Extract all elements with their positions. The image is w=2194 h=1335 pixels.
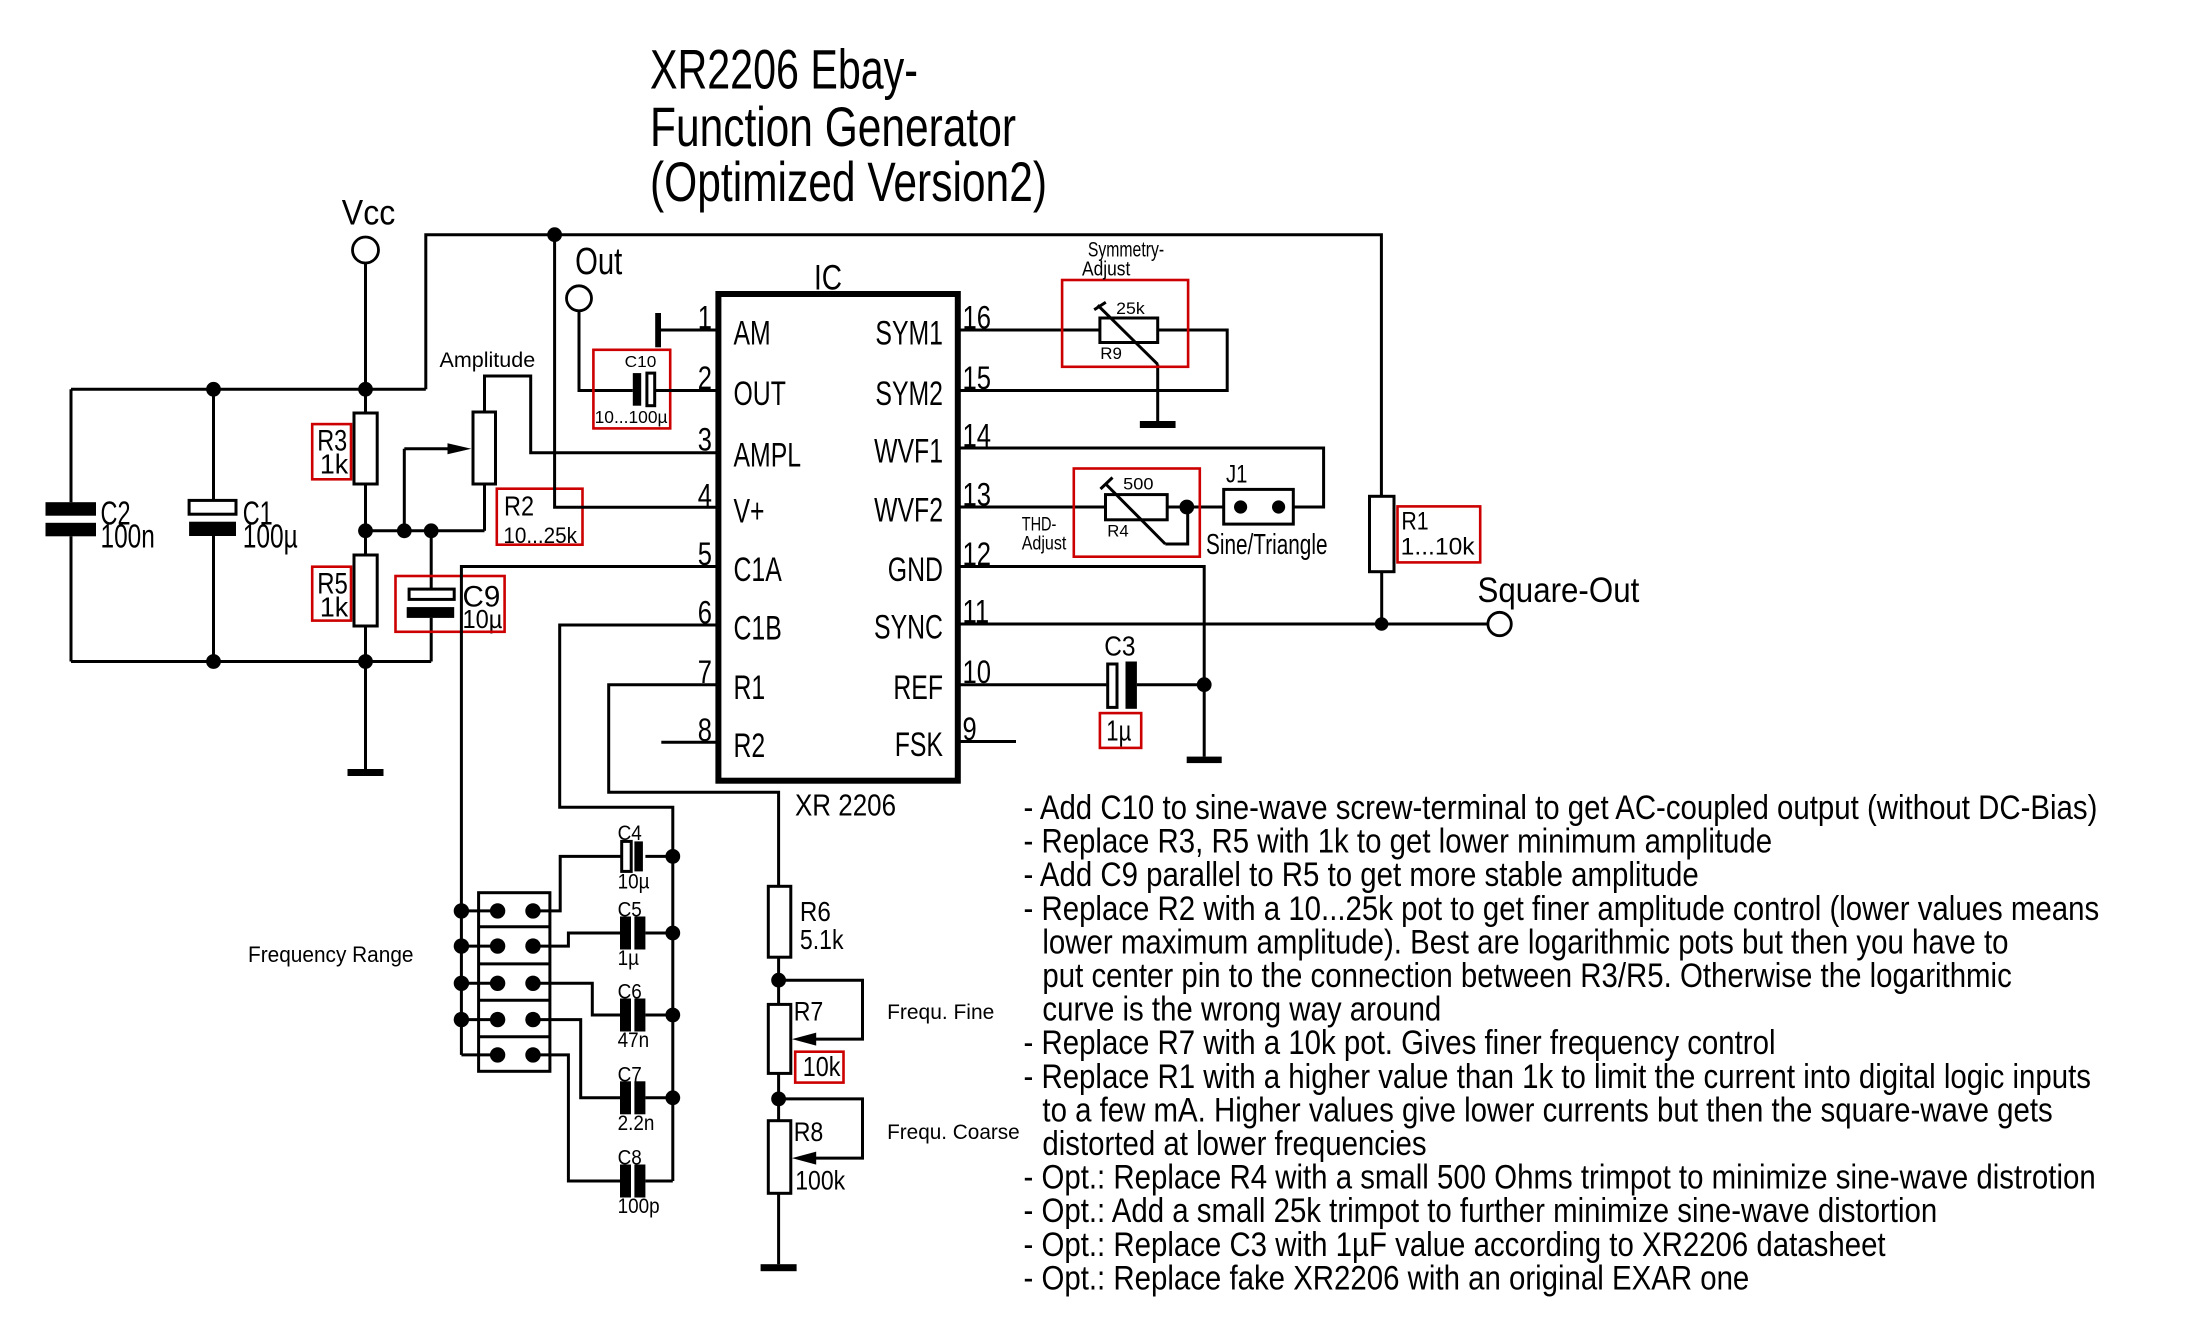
wire C10 to pin2 [655, 389, 719, 392]
potentiometer R9 [1094, 300, 1158, 364]
wire pin11 SYNC to Square-Out [958, 623, 1488, 626]
svg-text:V+: V+ [734, 493, 765, 531]
svg-text:Out: Out [575, 241, 623, 283]
wire Vcc to V+ pin4 [555, 235, 719, 508]
pin 12 label GND [888, 536, 991, 589]
svg-text:- Opt.: Replace C3 with 1µF va: - Opt.: Replace C3 with 1µF value accord… [1024, 1226, 1887, 1264]
svg-text:1µ: 1µ [618, 947, 639, 970]
svg-text:XR2206 Ebay-: XR2206 Ebay- [650, 38, 918, 101]
svg-text:10...25k: 10...25k [503, 523, 578, 548]
svg-text:curve is the wrong way around: curve is the wrong way around [1042, 991, 1441, 1029]
svg-text:- Opt.: Replace R4 with a smal: - Opt.: Replace R4 with a small 500 Ohms… [1024, 1159, 2096, 1197]
resistor R5 [317, 555, 377, 626]
node C1 bottom [206, 654, 221, 669]
capacitor C9 [407, 531, 503, 662]
svg-text:25k: 25k [1116, 300, 1145, 318]
svg-text:OUT: OUT [734, 375, 786, 413]
wire pin16 to R9 [958, 329, 1100, 332]
node rail row1 [454, 903, 469, 918]
node R6/R7 [771, 973, 786, 988]
svg-text:SYNC: SYNC [874, 609, 943, 647]
svg-text:C4: C4 [618, 822, 642, 845]
svg-text:1...10k: 1...10k [1401, 534, 1476, 561]
wire R9 wiper to ground [1156, 364, 1159, 421]
pin 7 label R1 [698, 654, 765, 707]
notes text block [1024, 789, 2100, 1297]
svg-text:5.1k: 5.1k [800, 924, 844, 955]
node rail row2 [454, 938, 469, 953]
capacitor C7 [618, 1063, 673, 1135]
svg-text:10µ: 10µ [463, 604, 503, 634]
node C7 rail [665, 1090, 680, 1105]
wire pin6 C1B to cap rail [560, 625, 719, 1181]
svg-text:R6: R6 [800, 896, 831, 927]
wire R3/R5 junction row [366, 484, 485, 555]
svg-text:C1A: C1A [734, 551, 783, 589]
capacitor C10 [595, 354, 668, 427]
label box 10k [795, 1051, 843, 1083]
label box R3 [312, 424, 351, 479]
svg-text:100p: 100p [618, 1195, 660, 1218]
svg-text:AMPL: AMPL [734, 437, 802, 475]
wire pin5 C1A to switch rail [461, 567, 718, 1055]
svg-text:to a few mA. Higher values giv: to a few mA. Higher values give lower cu… [1042, 1091, 2052, 1129]
svg-text:500: 500 [1123, 475, 1153, 493]
svg-text:C3: C3 [1104, 631, 1135, 662]
label box C10 [593, 350, 670, 429]
svg-text:1k: 1k [320, 591, 349, 622]
pin8 R2 stub [661, 741, 718, 744]
svg-text:REF: REF [893, 669, 943, 707]
svg-text:C1B: C1B [734, 610, 782, 648]
pin9 FSK stub [958, 740, 1016, 743]
pin 15 label SYM2 [875, 360, 991, 413]
pin 9 label FSK [895, 711, 977, 764]
svg-text:(Optimized Version2): (Optimized Version2) [650, 150, 1047, 213]
wire switch row3 to C6 [533, 983, 620, 1015]
svg-text:Sine/Triangle: Sine/Triangle [1206, 529, 1328, 561]
Out terminal [567, 241, 623, 311]
wire R4 to J1 [1167, 506, 1224, 509]
potentiometer R4 [1101, 475, 1188, 544]
svg-text:10k: 10k [803, 1051, 841, 1082]
svg-text:R2: R2 [734, 727, 766, 765]
svg-text:2.2n: 2.2n [618, 1112, 655, 1135]
wire pin14 WVF1 to J1 [958, 448, 1324, 507]
ground R5 [348, 769, 384, 776]
node C9 top [424, 523, 439, 538]
wire pin7 R1 to R6 [609, 685, 779, 887]
label box Symmetry-Adjust [1062, 280, 1188, 367]
pin 10 label REF [893, 654, 991, 707]
svg-text:- Replace R3, R5 with 1k to ge: - Replace R3, R5 with 1k to get lower mi… [1024, 823, 1773, 861]
label box R2 [497, 489, 583, 545]
wire bottom rail [71, 660, 431, 663]
capacitor C3 [1104, 631, 1204, 709]
svg-text:- Opt.: Add a small 25k trimpo: - Opt.: Add a small 25k trimpot to furth… [1024, 1192, 1938, 1230]
svg-text:SYM1: SYM1 [875, 315, 943, 353]
node R3 bottom [358, 523, 373, 538]
label R1 value [1401, 508, 1476, 561]
title text [650, 38, 1047, 214]
node rail row4 [454, 1012, 469, 1027]
svg-text:WVF1: WVF1 [874, 433, 943, 471]
capacitor C4 [618, 822, 673, 894]
svg-text:Frequ. Coarse: Frequ. Coarse [887, 1121, 1020, 1144]
svg-text:4: 4 [698, 478, 712, 514]
svg-text:100µ: 100µ [243, 518, 298, 555]
capacitor C1 [189, 389, 298, 661]
ground R8 [761, 1264, 797, 1271]
svg-text:Function Generator: Function Generator [650, 95, 1016, 158]
svg-text:SYM2: SYM2 [875, 375, 943, 413]
node C5 rail [665, 926, 680, 941]
svg-text:R8: R8 [794, 1117, 824, 1147]
svg-text:distorted at lower frequencies: distorted at lower frequencies [1042, 1125, 1426, 1163]
pin 11 label SYNC [874, 594, 989, 647]
svg-text:IC: IC [814, 259, 842, 298]
pin 6 label C1B [698, 595, 782, 648]
wire switch row4 to C7 [533, 1020, 620, 1098]
wire R7-R8 [777, 1073, 780, 1120]
svg-text:R4: R4 [1107, 523, 1128, 541]
pin 5 label C1A [698, 536, 782, 589]
svg-text:10...100µ: 10...100µ [595, 407, 668, 427]
wire top rail [426, 235, 1382, 497]
node C4 rail [665, 849, 680, 864]
label Symmetry-Adjust [1082, 238, 1164, 280]
svg-text:2: 2 [698, 360, 712, 396]
ground GND/C3 [1187, 757, 1222, 764]
resistor R3 [317, 413, 377, 484]
node C3 right [1197, 677, 1212, 692]
svg-text:- Add C9 parallel to R5 to get: - Add C9 parallel to R5 to get more stab… [1024, 856, 1699, 894]
svg-text:GND: GND [888, 551, 943, 589]
potentiometer R8 [768, 1099, 862, 1196]
wire switch row5 to C8 [533, 1055, 620, 1181]
potentiometer R7 [768, 980, 862, 1073]
pin 14 label WVF1 [874, 418, 991, 471]
svg-text:lower maximum amplitude). Best: lower maximum amplitude). Best are logar… [1042, 923, 2008, 961]
capacitor C2 [46, 389, 155, 661]
svg-text:WVF2: WVF2 [874, 492, 943, 530]
svg-text:Vcc: Vcc [342, 193, 396, 233]
node top rail junction [547, 227, 562, 242]
svg-text:Adjust: Adjust [1082, 258, 1131, 281]
jumper J1 [1224, 460, 1294, 524]
ground R9 [1140, 421, 1176, 428]
wire Vcc drop [364, 262, 367, 413]
node C6 rail [665, 1008, 680, 1023]
pin 3 label AMPL [698, 422, 801, 475]
wire R5 to ground [364, 626, 367, 769]
svg-text:Frequency Range: Frequency Range [248, 942, 414, 967]
svg-text:1µ: 1µ [1106, 716, 1131, 748]
wire R8 to ground [777, 1193, 780, 1264]
capacitor C8 [618, 1147, 673, 1219]
svg-text:R1: R1 [734, 669, 766, 707]
pin 8 label R2 [698, 712, 765, 765]
switch Frequency Range [461, 893, 550, 1072]
label box THD-Adjust [1074, 469, 1200, 557]
svg-text:- Add C10 to sine-wave screw-t: - Add C10 to sine-wave screw-terminal to… [1024, 789, 2098, 827]
pin 2 label OUT [698, 360, 786, 413]
svg-text:C5: C5 [618, 899, 642, 922]
node R1 bottom [1375, 617, 1389, 631]
svg-text:Adjust: Adjust [1022, 533, 1067, 554]
capacitor C5 [618, 899, 673, 971]
svg-text:R1: R1 [1401, 508, 1428, 536]
node wiper join [397, 523, 412, 538]
svg-text:R2: R2 [504, 490, 534, 521]
wire Out to C10 [579, 310, 633, 391]
node Vcc/R3 [358, 382, 373, 397]
wire pin10 REF to C3 [958, 683, 1107, 686]
svg-text:J1: J1 [1226, 460, 1247, 488]
wire R9 right to pin15 [958, 330, 1227, 391]
pin 1 label AM [698, 300, 771, 353]
pin1 AM stub bar [655, 313, 718, 347]
svg-text:AM: AM [734, 315, 771, 353]
node R7/R8 [771, 1092, 786, 1107]
node C1 top [206, 382, 221, 397]
label box R5 [312, 567, 351, 621]
svg-text:- Replace R2 with a 10...25k p: - Replace R2 with a 10...25k pot to get … [1024, 890, 2100, 928]
capacitor C6 [618, 981, 673, 1053]
label R2 value [503, 490, 578, 548]
svg-text:C7: C7 [618, 1063, 642, 1086]
svg-text:FSK: FSK [895, 726, 944, 764]
svg-text:put center pin to the connecti: put center pin to the connection between… [1042, 957, 2011, 995]
svg-text:XR 2206: XR 2206 [795, 787, 896, 822]
Square-Out terminal [1478, 571, 1640, 636]
pin 13 label WVF2 [874, 477, 991, 530]
node R4 wiper [1179, 500, 1194, 515]
svg-text:3: 3 [698, 422, 712, 458]
Vcc terminal [342, 193, 396, 263]
wire left horizontal Vcc [71, 388, 426, 391]
wire R6-R7 [777, 957, 780, 1004]
svg-text:C6: C6 [618, 981, 642, 1004]
node R5 bottom [358, 654, 373, 669]
node rail row3 [454, 976, 469, 991]
svg-text:Square-Out: Square-Out [1478, 571, 1640, 610]
label box R1 [1398, 506, 1481, 562]
wire pin12 GND down [958, 567, 1204, 757]
svg-text:R9: R9 [1100, 345, 1122, 363]
svg-text:100k: 100k [795, 1166, 845, 1196]
svg-text:C10: C10 [625, 354, 657, 371]
label box C9 [396, 576, 505, 632]
svg-text:100n: 100n [101, 518, 155, 555]
resistor R6 [768, 886, 844, 957]
svg-text:- Replace R7 with a 10k pot. G: - Replace R7 with a 10k pot. Gives finer… [1024, 1024, 1776, 1062]
pin 16 label SYM1 [875, 300, 991, 353]
svg-text:Amplitude: Amplitude [440, 349, 536, 372]
svg-text:1: 1 [698, 300, 712, 336]
svg-text:Frequ. Fine: Frequ. Fine [887, 1001, 994, 1024]
resistor R1 [1370, 496, 1395, 624]
op-amp IC XR2206 body [718, 294, 957, 781]
wire switch row1 to C4 [533, 856, 622, 911]
wire pin13 to R4 [958, 506, 1106, 509]
svg-text:47n: 47n [618, 1029, 650, 1052]
svg-text:1k: 1k [320, 448, 349, 479]
svg-text:R7: R7 [794, 996, 824, 1026]
svg-text:- Opt.: Replace fake XR2206 wi: - Opt.: Replace fake XR2206 with an orig… [1024, 1259, 1750, 1297]
potentiometer R2 Amplitude [473, 376, 718, 531]
svg-text:C8: C8 [618, 1147, 642, 1170]
pin 4 label V+ [698, 478, 765, 531]
svg-text:- Replace R1 with a higher val: - Replace R1 with a higher value than 1k… [1024, 1058, 2092, 1096]
svg-text:10µ: 10µ [618, 870, 650, 893]
wiper arrow Amplitude pot [404, 443, 471, 531]
wire switch row2 to C5 [533, 933, 620, 946]
label THD-Adjust [1022, 515, 1067, 555]
label box 1µ (C3) [1100, 713, 1141, 748]
